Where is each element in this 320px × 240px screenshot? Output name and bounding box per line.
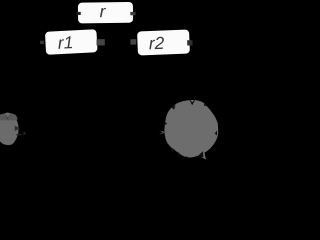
wire stub left of r1 <box>40 41 44 44</box>
subtree cloud T1 (left) body <box>0 112 19 145</box>
cloud T1 darker top band <box>0 113 18 121</box>
node r1 box <box>45 29 98 55</box>
label r2 <box>149 37 164 50</box>
label r <box>100 8 106 17</box>
wire stub right of r1 <box>97 39 105 45</box>
tail lobe at cloud T2 bottom-right <box>198 151 207 160</box>
wire stub left of r2 <box>130 39 136 44</box>
rim tick upper-right of cloud T2 <box>204 103 208 107</box>
rim dent right of cloud T2 <box>215 131 218 136</box>
node r2 box <box>137 30 190 56</box>
rim dent bottom-left of cloud T2 <box>178 152 182 156</box>
arrowhead left of cloud T2 <box>159 130 167 134</box>
node r box <box>78 2 133 24</box>
wire stub right of r2 <box>187 40 192 45</box>
edge notch into cloud T2 top <box>188 98 196 106</box>
rim dent upper-left of cloud T2 <box>171 105 175 110</box>
edge notch into cloud T1 top <box>5 113 11 119</box>
wire stub left of r <box>76 12 80 15</box>
rim dent lower-left of cloud T2 <box>170 147 175 152</box>
subtree cloud T2 (right) <box>164 100 218 160</box>
rim tick left of cloud T2 <box>164 122 167 126</box>
wire stub right of r <box>130 12 135 15</box>
rim dent bottom of cloud T2 <box>186 156 190 158</box>
edge notch into cloud T2 bottom <box>196 151 203 158</box>
arrowhead right edge of cloud T1 <box>15 126 20 131</box>
label r1 <box>58 36 72 49</box>
arrowhead tail dot right of cloud T1 <box>23 132 25 134</box>
faint wire dash below arrowhead of T1 <box>16 134 21 135</box>
